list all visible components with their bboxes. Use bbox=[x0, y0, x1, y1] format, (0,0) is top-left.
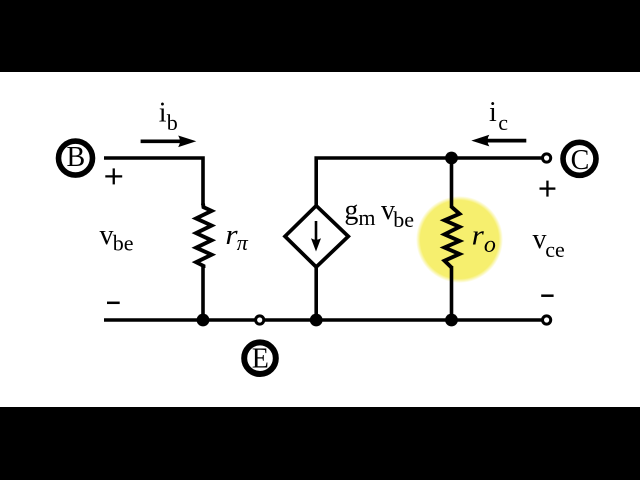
junction dot at r_pi/E rail bbox=[197, 314, 210, 327]
svg-text:π: π bbox=[237, 230, 249, 255]
svg-text:be: be bbox=[393, 207, 414, 232]
svg-text:B: B bbox=[66, 142, 85, 173]
plus sign left bbox=[105, 175, 122, 177]
wire top rail (dependent source to C terminal) bbox=[316, 158, 542, 207]
svg-text:b: b bbox=[167, 110, 178, 135]
wire r_pi bottom lead bbox=[201, 266, 205, 320]
svg-text:c: c bbox=[498, 110, 508, 135]
junction dot at source/E rail bbox=[310, 314, 323, 327]
plus sign right bbox=[540, 187, 556, 189]
svg-text:be: be bbox=[113, 231, 134, 256]
wire source bottom lead bbox=[314, 266, 318, 321]
node B circle bbox=[59, 141, 93, 175]
junction dot at r_o/E rail bbox=[445, 314, 458, 327]
svg-text:ce: ce bbox=[545, 237, 565, 262]
junction dot at r_o top rail bbox=[445, 152, 458, 165]
terminal E open circle bbox=[256, 316, 264, 324]
svg-text:i: i bbox=[489, 97, 497, 128]
node E circle bbox=[244, 342, 276, 374]
terminal C open circle bbox=[543, 154, 551, 162]
node C circle bbox=[563, 142, 596, 175]
white drawing area bbox=[0, 72, 640, 407]
svg-text:g: g bbox=[344, 195, 358, 226]
current arrow i_c bbox=[486, 139, 526, 143]
svg-text:v: v bbox=[100, 220, 114, 251]
dependent current source G1 diamond bbox=[285, 206, 348, 267]
bottom rail wire E bbox=[104, 318, 542, 322]
svg-text:i: i bbox=[159, 98, 167, 129]
terminal C- open circle bottom right bbox=[543, 316, 551, 324]
svg-text:E: E bbox=[252, 344, 269, 375]
resistor R r_o bbox=[450, 158, 454, 208]
minus sign left bbox=[107, 302, 120, 305]
arrow inside source bbox=[315, 221, 318, 241]
svg-text:o: o bbox=[484, 232, 496, 258]
svg-text:r: r bbox=[472, 220, 484, 251]
resistor R r_pi bbox=[196, 204, 212, 269]
minus sign right bbox=[541, 294, 553, 297]
svg-text:C: C bbox=[571, 145, 590, 176]
svg-text:m: m bbox=[358, 205, 375, 230]
wire B to r_pi corner bbox=[104, 158, 203, 205]
current arrow i_b bbox=[141, 139, 181, 143]
